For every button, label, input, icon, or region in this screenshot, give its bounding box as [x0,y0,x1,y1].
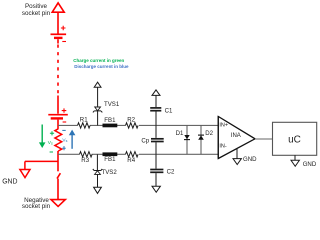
resistor R2 [126,123,139,128]
capacitor Cp [151,125,164,154]
svg-text:FB1: FB1 [104,156,116,163]
wire INA output [255,138,273,140]
svg-text:GND: GND [303,161,317,168]
svg-text:INA: INA [231,133,241,139]
svg-text:R1: R1 [80,117,88,124]
battery cell B2 [48,96,68,129]
battery cell B1 [51,26,67,44]
battery stack dashed line [57,45,59,96]
ground (INA) [233,148,241,164]
resistor R1 [78,123,91,128]
svg-text:D2: D2 [205,130,213,137]
ground (uC) [291,155,299,166]
svg-text:C1: C1 [165,107,173,114]
negative socket pin arrow [51,200,65,207]
resistor R3 [80,152,93,157]
TVS1 [93,82,102,125]
svg-text:IN-: IN- [219,144,227,150]
svg-text:Charge current in green: Charge current in green [73,58,124,63]
wire red below shunt [57,151,59,171]
svg-text:GND: GND [2,178,17,185]
ferrite bead FB1 (bottom) [103,152,118,156]
svg-text:TVS1: TVS1 [104,101,120,108]
discharge current arrow (blue) [62,130,75,151]
microcontroller uC [273,122,317,155]
svg-text:Vs: Vs [62,137,67,143]
capacitor C1 [150,90,161,126]
svg-text:R2: R2 [127,117,135,124]
svg-text:IN+: IN+ [219,123,228,129]
resistor R4 [126,152,139,157]
svg-text:Positive: Positive [25,3,48,10]
svg-text:R3: R3 [81,157,89,164]
switch (negative pin break) [57,173,60,199]
svg-text:GND: GND [243,156,257,163]
wire bottom rail [58,153,218,155]
svg-text:Discharge current in blue: Discharge current in blue [74,64,129,69]
svg-text:socket pin: socket pin [22,10,51,17]
svg-text:TVS2: TVS2 [102,169,118,176]
svg-text:socket pin: socket pin [22,203,51,210]
svg-text:D1: D1 [176,130,184,137]
svg-text:FB1: FB1 [104,117,116,124]
wire top rail [58,124,218,126]
positive socket pin arrow [52,3,64,34]
diode D2 [198,125,204,154]
svg-text:R4: R4 [127,157,135,164]
capacitor C2 [150,154,163,192]
svg-text:C2: C2 [167,169,175,176]
op-amp INA [218,117,255,159]
diode D1 [184,125,190,154]
svg-text:uC: uC [288,135,301,146]
shunt resistor (red zigzag) [55,129,62,151]
charge current arrow (green) [39,125,54,153]
op-amp INA input bus [217,116,219,159]
svg-text:Cp: Cp [141,137,149,144]
ground (left, red) [20,161,58,177]
svg-text:Vs: Vs [48,140,53,146]
TVS2 [93,154,102,193]
ferrite bead FB1 (top) [103,124,118,128]
